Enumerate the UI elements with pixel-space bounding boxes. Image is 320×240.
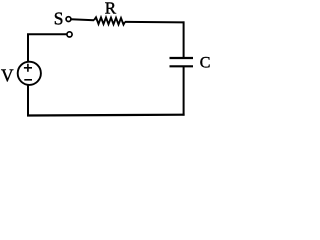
wire: bottom rail xyxy=(27,114,185,117)
voltage source minus sign xyxy=(24,79,32,81)
switch S lower contact circle xyxy=(67,32,72,37)
voltage source plus sign xyxy=(24,64,32,72)
wire: right vertical lower (capacitor bottom plate to bottom rail) xyxy=(183,66,185,115)
wire: right vertical upper (top rail to capacitor top plate) xyxy=(183,21,185,57)
wire: top rail left (switch upper contact to resistor) xyxy=(71,18,94,21)
resistor R zigzag xyxy=(94,17,125,24)
capacitor C bottom plate xyxy=(170,65,194,67)
svg-text:S: S xyxy=(54,8,64,28)
wire: switch feed horizontal (jog corner to lower switch contact) xyxy=(27,33,70,35)
wire: left vertical from switch jog through source V to bottom rail xyxy=(27,34,29,115)
wire: top rail right (resistor to top-right corner) xyxy=(125,21,185,24)
capacitor C top plate xyxy=(170,57,194,59)
voltage source V body circle xyxy=(18,62,41,85)
svg-text:V: V xyxy=(1,65,14,85)
svg-text:C: C xyxy=(200,55,211,72)
switch S upper contact circle xyxy=(66,17,71,22)
svg-text:R: R xyxy=(105,0,117,17)
